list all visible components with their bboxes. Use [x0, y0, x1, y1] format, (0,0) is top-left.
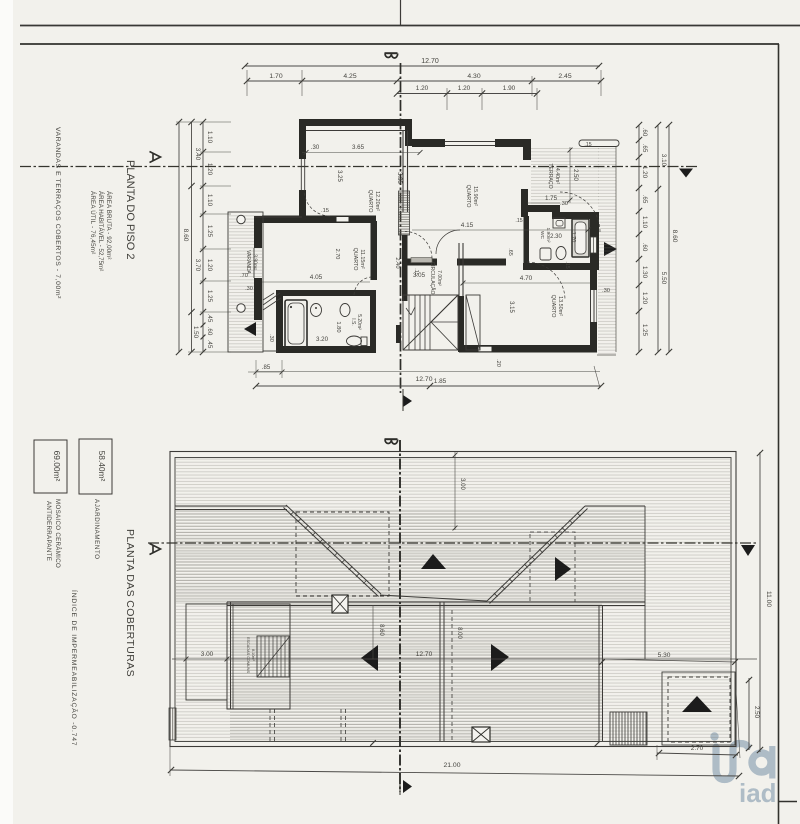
dim 2.70 label: [334, 249, 340, 260]
svg-text:AJARDINAMENTO: AJARDINAMENTO: [93, 499, 100, 560]
wall connector top centre: [405, 119, 412, 146]
dim .20 label bottom: [495, 359, 501, 367]
svg-text:1.25: 1.25: [641, 324, 648, 337]
svg-text:8.00: 8.00: [456, 627, 462, 639]
svg-text:4.05: 4.05: [310, 274, 323, 281]
section line A lower: [148, 543, 757, 555]
svg-text:5.30: 5.30: [658, 652, 671, 659]
dim 4.70 line: [461, 275, 590, 285]
svg-text:5.20m²: 5.20m²: [356, 314, 362, 330]
terrace box dashed inner: [668, 677, 730, 742]
wall NW inner top line: [306, 130, 405, 132]
roof inner line left: [175, 506, 287, 510]
room label quarto 15.90: [465, 185, 478, 208]
svg-text:2.70: 2.70: [691, 745, 704, 752]
svg-text:QUARTO: QUARTO: [352, 248, 358, 271]
svg-text:2.30: 2.30: [550, 234, 562, 240]
svg-text:.15: .15: [515, 218, 522, 224]
svg-text:12.70: 12.70: [415, 376, 432, 383]
main block top edge: [227, 602, 645, 606]
svg-text:.45: .45: [206, 314, 213, 323]
section arrow A lower (down): [741, 545, 755, 556]
svg-text:12.70: 12.70: [421, 58, 439, 65]
watermark iad logo: [710, 732, 772, 779]
roof inner bottom right: [602, 601, 645, 603]
svg-text:1.70: 1.70: [269, 73, 282, 80]
room label is 5.20: [350, 314, 362, 330]
svg-text:2.50: 2.50: [753, 706, 760, 719]
room label quarto 13.50: [550, 295, 563, 318]
svg-text:1.85: 1.85: [434, 378, 447, 385]
wc NE: [540, 247, 566, 261]
svg-text:4.70: 4.70: [520, 275, 533, 282]
wc SW: [347, 336, 368, 346]
main block left edge: [227, 602, 231, 709]
window threshold quarto13: [478, 346, 492, 352]
stair ramp hatch SW: [263, 293, 281, 310]
section arrow B upper (right): [403, 389, 412, 411]
svg-text:.30: .30: [311, 145, 320, 151]
roof inner right vertical: [644, 506, 646, 659]
wall corridor horiz west: [406, 259, 437, 266]
room label quarto 11.15: [352, 248, 365, 271]
room label quarto 12.20: [367, 190, 380, 213]
svg-text:VARANDA: VARANDA: [245, 250, 251, 274]
wall top step corner: [523, 139, 531, 160]
dim 8.60 rot lower: [373, 605, 384, 659]
left terrace rect: [186, 604, 227, 700]
wall bathroom SW left: [276, 290, 283, 353]
dim .15 label nw: [321, 208, 329, 214]
svg-text:.45: .45: [206, 340, 213, 349]
bottom border ticks: [370, 740, 600, 747]
left terrace label 3.00: [201, 651, 214, 658]
wall terrace south horiz 1: [521, 205, 560, 212]
svg-text:MOSAICO CERÂMICO: MOSAICO CERÂMICO: [54, 499, 61, 568]
roof ridge: [380, 595, 487, 601]
hatch terrace area: [531, 147, 599, 205]
railing bottom right: [610, 712, 647, 745]
wall terrace south vertical: [521, 189, 528, 217]
hatch main band: [230, 602, 602, 741]
dim 3.35 label: [396, 172, 402, 184]
svg-text:QUARTO: QUARTO: [367, 190, 373, 213]
sheet frame bottom-right tick: [779, 801, 798, 803]
svg-text:TERRAÇO: TERRAÇO: [547, 163, 553, 188]
wall quarto11 right: [371, 221, 378, 280]
stair side diagonal piece: [466, 295, 480, 350]
svg-text:2.50: 2.50: [572, 169, 578, 181]
svg-text:8.60: 8.60: [182, 229, 189, 242]
main block right vertical: [599, 605, 603, 741]
svg-text:1.10: 1.10: [641, 216, 648, 229]
dashed vertical 8.00: [451, 610, 453, 740]
wall top segment 2: [412, 139, 445, 147]
svg-text:7.00m²: 7.00m²: [436, 270, 442, 286]
door arc wc: [436, 230, 460, 254]
box 69.00: [34, 440, 67, 493]
svg-text:QUARTO: QUARTO: [465, 185, 471, 208]
svg-text:58.40m²: 58.40m²: [97, 451, 107, 482]
svg-text:4.40m²: 4.40m²: [554, 168, 560, 184]
svg-text:.60: .60: [641, 243, 648, 252]
svg-text:1.20: 1.20: [416, 85, 429, 92]
svg-text:ÁREA ÚTIL - 76,45m²: ÁREA ÚTIL - 76,45m²: [89, 191, 96, 254]
svg-text:VARANDAS E TERRAÇOS COBERTOS: VARANDAS E TERRAÇOS COBERTOS - 7,00m²: [54, 127, 61, 299]
dim 3.00 left: [184, 657, 230, 662]
svg-text:.15: .15: [584, 142, 591, 148]
dim 3.15 label: [508, 301, 514, 313]
wall terrace south horiz 2: [560, 212, 599, 219]
svg-text:.60: .60: [206, 327, 213, 336]
line SW left edge: [253, 248, 255, 278]
svg-text:1.20: 1.20: [206, 259, 213, 272]
svg-text:1.90: 1.90: [503, 85, 516, 92]
main block mid vertical: [440, 602, 444, 741]
section marker B top: [385, 53, 398, 58]
bathtub SW: [285, 300, 307, 348]
door arc quarto11: [354, 277, 371, 295]
svg-text:21.00: 21.00: [443, 762, 460, 769]
svg-text:1.25: 1.25: [206, 290, 213, 303]
left white scan strip: [0, 0, 13, 824]
dim 4.05 line: [262, 274, 370, 282]
dim overall 12.70 top: [242, 58, 602, 69]
dashed roof rect centre: [296, 512, 389, 596]
wall stair east vertical: [459, 243, 463, 296]
section line B upper: [400, 63, 402, 393]
wall bathroom SW bottom: [276, 346, 376, 353]
svg-text:.65: .65: [641, 144, 648, 153]
window top centre: [445, 142, 495, 146]
dim .15 labels misc: [413, 142, 592, 276]
washbasin NE: [553, 218, 565, 228]
svg-text:.65: .65: [641, 195, 648, 204]
section arrow A upper (down): [679, 169, 693, 178]
stair pier black: [396, 325, 401, 343]
svg-text:.20: .20: [495, 359, 501, 367]
dim 21.00 bottom: [168, 747, 742, 779]
roof arrow centre (right): [491, 644, 509, 671]
roof hip diagonal left: [284, 505, 382, 597]
svg-text:.30: .30: [560, 201, 568, 207]
sheet frame top edge: [20, 43, 779, 45]
svg-text:ANTIDERRAPANTE: ANTIDERRAPANTE: [45, 501, 52, 561]
label 5.30: [599, 652, 738, 665]
terrace label: [547, 163, 560, 188]
wall corridor horiz east: [457, 259, 506, 266]
svg-text:4.30: 4.30: [467, 73, 480, 80]
svg-text:1.80: 1.80: [335, 321, 341, 332]
label 12.70 lower: [416, 651, 433, 658]
svg-text:1.20: 1.20: [641, 166, 648, 179]
svg-text:.15: .15: [321, 208, 329, 214]
stair tower text: [246, 637, 255, 674]
stairs upper plan: [403, 295, 458, 350]
text area habitavel: [97, 191, 104, 271]
crossed box centre: [332, 595, 348, 613]
svg-text:.15: .15: [564, 261, 570, 268]
svg-text:2.45: 2.45: [558, 73, 571, 80]
svg-text:.30: .30: [602, 288, 610, 294]
section arrow B lower (right): [400, 775, 412, 795]
text area util: [89, 191, 96, 254]
svg-text:12.20m²: 12.20m²: [374, 191, 380, 211]
roof arrow upper-left (up): [421, 554, 446, 569]
svg-text:1.70: 1.70: [570, 232, 576, 243]
window NW left: [301, 159, 304, 190]
box 58.40: [79, 439, 112, 494]
svg-text:8.60: 8.60: [378, 624, 384, 636]
top centre tick: [400, 0, 402, 26]
svg-text:1.50: 1.50: [192, 326, 199, 339]
roof arrow left (left): [361, 645, 378, 671]
hatch mid band: [176, 510, 645, 602]
text indice impermeabilizacao: [70, 590, 79, 746]
svg-text:11.00: 11.00: [765, 591, 772, 607]
dim 3.25 label: [336, 170, 342, 182]
svg-text:1.10: 1.10: [206, 131, 213, 144]
dim 3.00 rot upper: [453, 452, 465, 530]
dim 12.70 1.85 bottom: [253, 366, 604, 389]
dim row top sub: [394, 85, 540, 110]
svg-text:1.20: 1.20: [206, 163, 213, 176]
line below plan: [256, 371, 600, 373]
text ajardinamento: [93, 499, 100, 560]
dim 2.40 label: [394, 257, 400, 268]
dim 2.50 right: [746, 677, 760, 751]
title planta do piso 2: [124, 160, 136, 259]
svg-text:4.25: 4.25: [343, 73, 356, 80]
text varandas: [54, 127, 61, 299]
varanda column top: [237, 215, 245, 223]
roof hip diagonal right: [487, 506, 588, 604]
line varanda floor: [263, 350, 278, 352]
svg-text:QUARTO: QUARTO: [550, 295, 556, 318]
svg-text:ESCADAS COMUNS: ESCADAS COMUNS: [246, 637, 250, 674]
door threshold NW: [336, 217, 349, 223]
window main right: [590, 290, 597, 322]
svg-text:1.30: 1.30: [641, 266, 648, 279]
window NE right wall: [591, 237, 597, 253]
dim .30 3.65 line: [302, 144, 422, 155]
wall partition NW/NE rooms: [403, 131, 408, 213]
dim 1.75 line: [527, 195, 568, 207]
dim .85 bottom: [248, 360, 284, 378]
svg-text:.70: .70: [240, 273, 248, 279]
dim 8.00 rot lower: [456, 627, 462, 639]
dashed rect right: [530, 532, 575, 602]
hatch varanda block: [229, 214, 262, 350]
wall NW room top: [299, 119, 409, 126]
wall SW outer upper: [254, 216, 262, 248]
svg-text:8.60: 8.60: [671, 230, 678, 243]
svg-text:4.15: 4.15: [461, 222, 474, 229]
svg-text:.30: .30: [268, 334, 274, 342]
lower plan interior hatch: [176, 459, 730, 741]
roof arrow terrace (up): [682, 696, 712, 712]
line SW top edge: [254, 216, 302, 218]
svg-text:3.20: 3.20: [316, 336, 329, 343]
svg-text:3.35: 3.35: [396, 172, 402, 184]
wall NW room left lower: [299, 190, 306, 221]
dim 4.15 line: [412, 222, 590, 232]
svg-text:ÁREA HABITÁVEL - 52,75m²: ÁREA HABITÁVEL - 52,75m²: [97, 191, 104, 271]
long witness line lower: [172, 658, 757, 660]
terrace box bottom right: [662, 672, 735, 745]
svg-text:CIRCULAÇÃO: CIRCULAÇÃO: [429, 262, 436, 295]
dim 2.50 terrace: [568, 147, 578, 203]
svg-text:8.10m²: 8.10m²: [251, 649, 255, 662]
svg-text:WC: WC: [539, 231, 545, 240]
dim 11.00 right: [757, 450, 772, 753]
text area bruta: [105, 191, 112, 260]
hatched partition poche: [399, 191, 410, 235]
planter top right: [579, 140, 619, 147]
lower plan inner border: [175, 458, 731, 742]
roof inner line right: [585, 505, 645, 507]
room label circulacao: [429, 262, 442, 295]
dim 3.05 label: [413, 272, 426, 279]
varanda outline: [228, 212, 263, 352]
svg-text:PLANTA DO PISO 2: PLANTA DO PISO 2: [124, 160, 136, 259]
svg-text:.65: .65: [507, 248, 513, 256]
roof arrow mid (right): [555, 557, 571, 581]
sheet frame right edge: [778, 44, 780, 824]
door leaf corridor: [411, 258, 432, 263]
section line B lower: [385, 439, 401, 792]
wall partition lower segment: [402, 235, 408, 301]
hatch right strip: [597, 147, 616, 355]
svg-text:11.15m²: 11.15m²: [359, 249, 365, 269]
watermark iad text: [739, 778, 777, 808]
bidet SW: [340, 304, 350, 317]
dashed lines below tower: [270, 709, 346, 741]
dim 2.70 bottom: [656, 690, 740, 760]
room label wc 1.90: [539, 228, 551, 243]
svg-text:1.10: 1.10: [206, 194, 213, 207]
svg-text:3.90m²: 3.90m²: [252, 254, 258, 270]
svg-text:ÍNDICE DE IMPERMEABILIZAÇÃO -0: ÍNDICE DE IMPERMEABILIZAÇÃO -0.747: [70, 590, 79, 746]
varanda column bottom: [237, 304, 245, 312]
left edge ladder hatch: [169, 708, 176, 740]
svg-text:ÁREA BRUTA - 92,00m²: ÁREA BRUTA - 92,00m²: [105, 191, 112, 260]
wall NW room bottom: [262, 216, 376, 224]
svg-text:.30: .30: [245, 286, 253, 292]
stair tower: [227, 604, 290, 709]
crossed box bottom: [472, 727, 490, 742]
bathtub NE: [572, 219, 589, 257]
wall NW room left upper: [299, 119, 306, 159]
right dimension chains: [636, 122, 678, 355]
text mosaico: [45, 499, 61, 568]
section line A upper: [20, 152, 697, 167]
varanda wall pier: [256, 282, 262, 320]
top border line 1: [20, 25, 800, 27]
title planta das coberturas: [124, 529, 136, 677]
door arc quarto13: [527, 262, 565, 300]
left dimension chains: [176, 119, 231, 355]
svg-text:1.25: 1.25: [206, 225, 213, 238]
svg-text:1.20: 1.20: [458, 85, 471, 92]
svg-text:2.40: 2.40: [394, 257, 400, 268]
svg-text:3.15: 3.15: [508, 301, 514, 313]
svg-text:3.00: 3.00: [201, 651, 214, 658]
wall top segment 3: [495, 139, 531, 147]
dim 2.30 label: [550, 232, 576, 243]
varanda label: [245, 250, 258, 274]
svg-text:1.20: 1.20: [641, 292, 648, 305]
lower plan outer border: [170, 452, 736, 747]
svg-text:1.75: 1.75: [545, 195, 558, 202]
svg-text:12.70: 12.70: [416, 651, 433, 658]
svg-text:.15: .15: [413, 268, 419, 276]
stairs lower plan: [257, 636, 290, 677]
wall WC partition: [524, 216, 530, 263]
dim labels sw corner: [240, 273, 341, 343]
wall bathroom SW top: [283, 290, 376, 296]
svg-text:iad: iad: [739, 778, 777, 808]
svg-text:PLANTA DAS COBERTURAS: PLANTA DAS COBERTURAS: [124, 529, 136, 677]
wall SW outer lower: [254, 278, 262, 320]
svg-text:3.25: 3.25: [336, 170, 342, 182]
wall bathroom NE bottom: [523, 263, 599, 270]
svg-text:15.90m²: 15.90m²: [472, 186, 478, 206]
door arc NW room: [304, 190, 330, 216]
wall stairwell/quarto13 partition: [458, 296, 464, 352]
svg-text:.85: .85: [262, 365, 271, 371]
dim .30 label right: [602, 288, 610, 294]
door arc NE room: [560, 192, 600, 232]
svg-text:3.40: 3.40: [194, 148, 201, 161]
door arc corridor: [405, 232, 432, 259]
svg-text:13.50m²: 13.50m²: [557, 296, 563, 316]
svg-text:3.00: 3.00: [459, 478, 465, 490]
svg-text:.60: .60: [641, 128, 648, 137]
slope arrow right of plan (right): [604, 242, 617, 256]
wall bathroom SW right: [370, 296, 376, 346]
svg-text:2.70: 2.70: [334, 249, 340, 260]
wall terrace step: [552, 205, 560, 219]
svg-text:I.S.: I.S.: [350, 318, 356, 326]
svg-text:69.00m²: 69.00m²: [52, 451, 62, 482]
svg-text:3.65: 3.65: [352, 144, 365, 151]
svg-text:5.50: 5.50: [660, 272, 667, 285]
wall NE right vertical: [591, 212, 599, 270]
wall main right: [590, 214, 597, 352]
svg-text:3.70: 3.70: [194, 259, 201, 272]
varanda slope arrow (left): [244, 322, 256, 336]
svg-text:3.10: 3.10: [660, 154, 667, 167]
washbasin SW: [311, 304, 322, 317]
wall quarto13 bottom: [459, 345, 597, 353]
dim row top segments: [244, 70, 604, 96]
